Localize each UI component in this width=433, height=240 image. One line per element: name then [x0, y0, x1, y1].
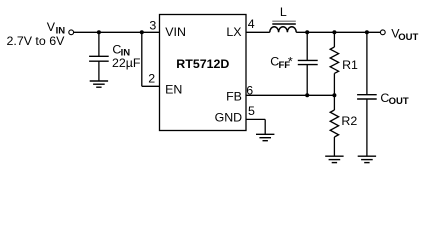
- svg-text:OUT: OUT: [389, 96, 409, 107]
- node VIN input terminal: [69, 30, 74, 35]
- op-amp U1 RT5712D body: [160, 15, 247, 131]
- ground below R2: [325, 156, 343, 162]
- wire R1 bottom to FB: [333, 73, 335, 95]
- junction FB CFF: [305, 93, 309, 97]
- svg-text:L: L: [280, 5, 287, 19]
- label CFF*: [270, 55, 293, 71]
- svg-text:2: 2: [148, 71, 155, 85]
- capacitor CFF: [298, 60, 318, 64]
- ground below GND pin: [256, 134, 274, 140]
- label VIN: [47, 20, 65, 36]
- wire junction down to CIN: [98, 32, 100, 56]
- node VOUT output terminal: [380, 30, 385, 35]
- svg-text:OUT: OUT: [398, 32, 418, 43]
- ground below CIN: [90, 81, 108, 87]
- junction FB divider: [332, 93, 336, 97]
- svg-text:VIN: VIN: [165, 25, 186, 39]
- wire EN branch vertical: [141, 32, 143, 86]
- svg-text:FB: FB: [226, 90, 242, 104]
- wire inductor to VOUT terminal: [296, 31, 380, 33]
- wire GND pin 5 vertical: [264, 119, 266, 134]
- svg-text:LX: LX: [226, 25, 241, 39]
- resistor R1: [330, 47, 338, 73]
- svg-text:5: 5: [248, 104, 255, 118]
- wire R2 top: [333, 95, 335, 110]
- junction CIN branch: [97, 30, 101, 34]
- ground below COUT: [358, 156, 376, 162]
- wire CFF bottom to FB net: [306, 65, 308, 96]
- svg-text:22µF: 22µF: [112, 56, 141, 70]
- inductor L core lines: [272, 21, 296, 24]
- wire pin 4 LX to inductor: [246, 31, 270, 33]
- wire EN branch horizontal to pin 2: [142, 85, 160, 87]
- junction EN branch: [140, 30, 144, 34]
- junction COUT branch: [365, 30, 369, 34]
- wire COUT top: [366, 32, 368, 94]
- svg-text:2.7V to 6V: 2.7V to 6V: [7, 34, 66, 48]
- svg-text:RT5712D: RT5712D: [176, 57, 229, 71]
- wire VIN terminal to pin 3: [74, 31, 160, 33]
- wire R1 top: [333, 32, 335, 47]
- wire FB pin 6 to divider: [246, 94, 334, 96]
- label COUT: [380, 91, 408, 107]
- svg-text:3: 3: [149, 19, 156, 33]
- svg-text:EN: EN: [165, 83, 182, 97]
- junction CFF branch: [305, 30, 309, 34]
- wire CIN to ground: [98, 61, 100, 81]
- svg-text:4: 4: [248, 17, 255, 31]
- svg-text:R2: R2: [341, 114, 357, 128]
- wire CFF top: [306, 32, 308, 60]
- svg-text:*: *: [288, 55, 293, 69]
- capacitor COUT: [357, 95, 377, 99]
- wire COUT bottom to ground: [366, 99, 368, 156]
- svg-text:R1: R1: [342, 58, 358, 72]
- label CIN: [112, 43, 130, 59]
- inductor L coil: [270, 27, 296, 33]
- wire R2 bottom to ground: [333, 137, 335, 156]
- label VOUT: [391, 27, 418, 43]
- svg-text:V: V: [47, 20, 56, 34]
- wire GND pin 5 horizontal: [246, 118, 265, 120]
- junction R1 branch: [332, 30, 336, 34]
- svg-text:GND: GND: [215, 110, 243, 124]
- capacitor CIN: [89, 56, 109, 61]
- resistor R2: [330, 110, 338, 137]
